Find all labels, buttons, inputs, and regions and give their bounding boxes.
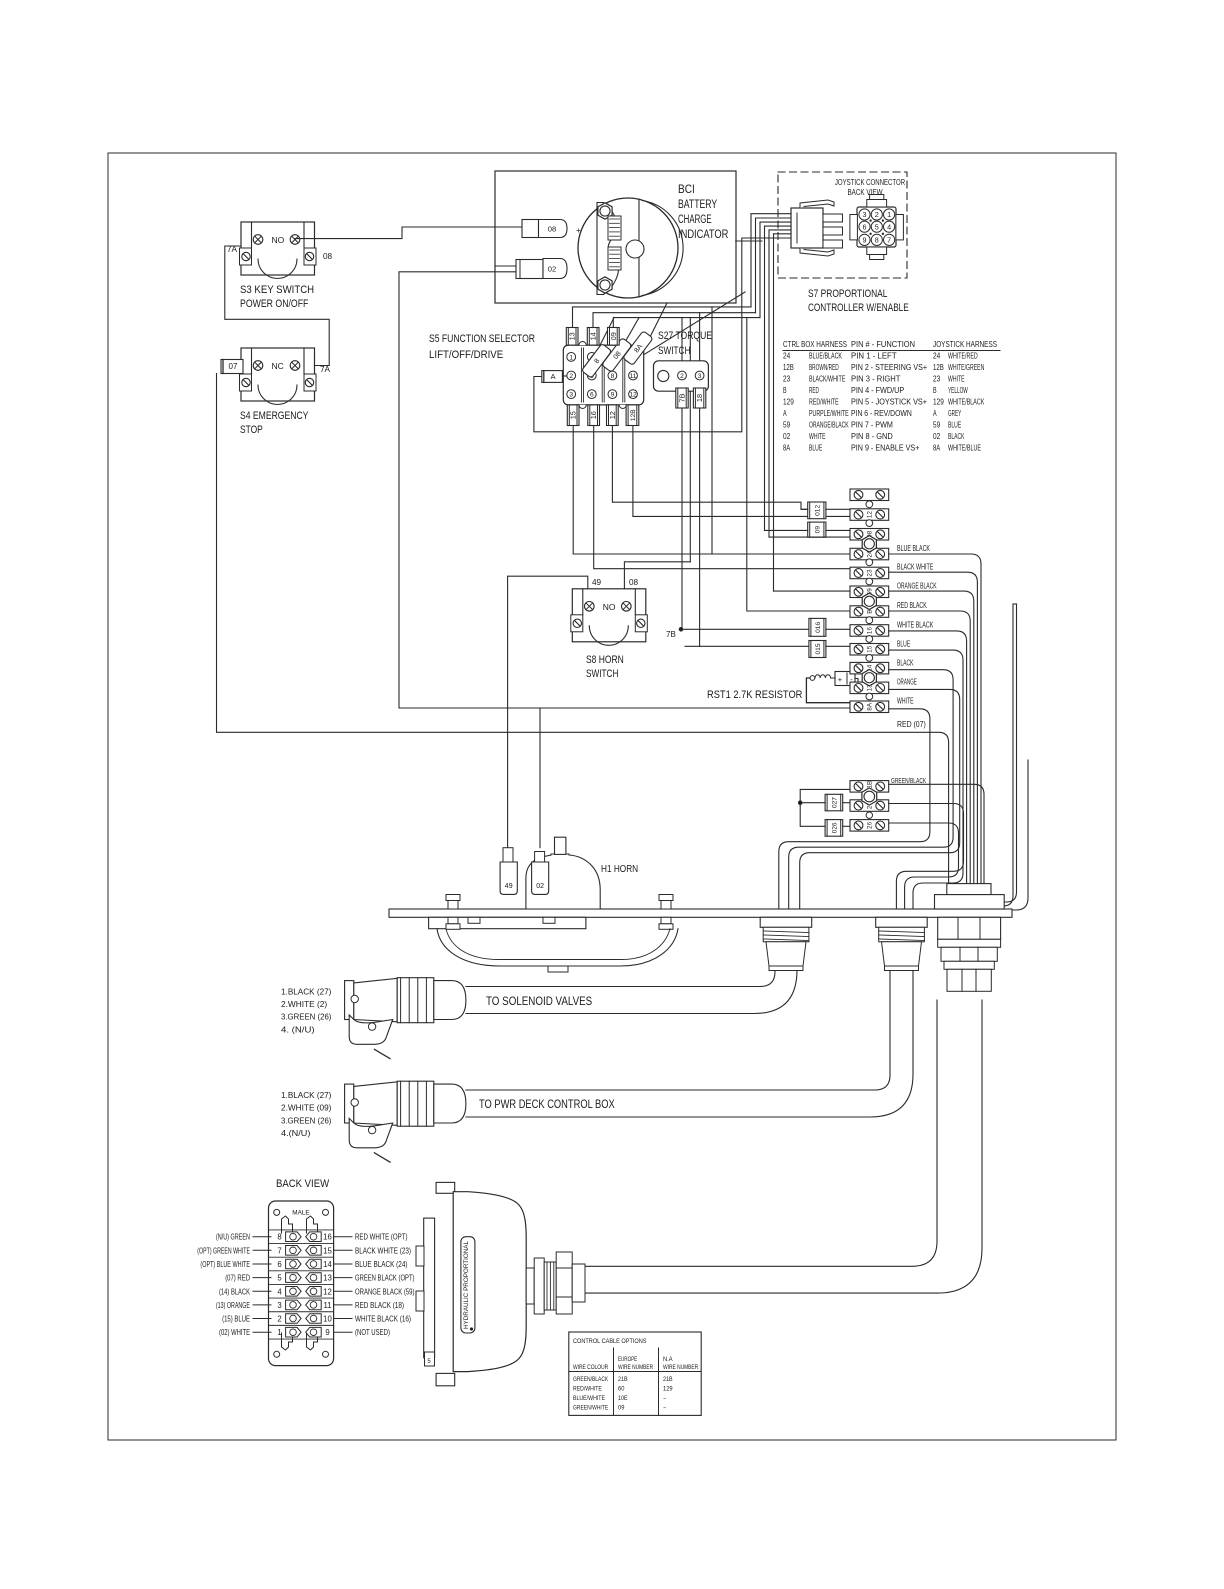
bolt right	[659, 895, 673, 901]
receptacle bottom tab	[867, 247, 887, 255]
BCI pin block lower	[608, 247, 621, 270]
link tag 08	[602, 338, 632, 373]
svg-text:015: 015	[815, 643, 822, 654]
svg-text:YELLOW: YELLOW	[948, 385, 968, 395]
selector column dividers	[581, 348, 583, 402]
svg-text:CHARGE: CHARGE	[678, 214, 712, 226]
svg-text:08: 08	[323, 252, 333, 261]
svg-text:B: B	[933, 385, 937, 395]
svg-text:4. (N/U): 4. (N/U)	[281, 1024, 315, 1034]
wire S8-08	[624, 562, 690, 589]
svg-text:12: 12	[323, 1287, 332, 1296]
wire diagonal d1	[640, 303, 667, 357]
tag 14	[587, 328, 599, 346]
svg-text:15: 15	[323, 1246, 332, 1255]
spade terminal 08	[522, 220, 539, 238]
svg-text:PIN 7 - PWM: PIN 7 - PWM	[851, 420, 893, 430]
svg-text:12: 12	[867, 511, 874, 519]
svg-text:8A: 8A	[867, 702, 874, 711]
svg-text:-: -	[663, 1405, 666, 1412]
flange tabs	[468, 917, 480, 923]
svg-text:H1 HORN: H1 HORN	[601, 863, 638, 875]
svg-text:18: 18	[695, 394, 704, 402]
svg-text:7: 7	[887, 236, 891, 245]
svg-text:2: 2	[277, 1315, 281, 1324]
link tag 8A	[623, 331, 653, 366]
wire sel12B to b2	[633, 426, 850, 517]
svg-text:2: 2	[680, 373, 684, 380]
backview pin row 8/16	[286, 1232, 302, 1242]
svg-text:+: +	[576, 226, 581, 235]
svg-text:09: 09	[814, 526, 821, 534]
link tag 8	[581, 343, 611, 378]
S27 terminal 2	[678, 371, 687, 380]
svg-text:(07) RED: (07) RED	[225, 1274, 250, 1283]
plug pin 2	[823, 227, 843, 235]
svg-text:(N/U) GREEN: (N/U) GREEN	[216, 1233, 250, 1242]
plug body S7	[791, 208, 823, 248]
svg-text:3: 3	[277, 1301, 281, 1310]
svg-text:JOYSTICK CONNECTOR: JOYSTICK CONNECTOR	[835, 178, 905, 187]
selector ear bottom1	[579, 405, 586, 409]
backview latch br	[307, 1333, 318, 1350]
svg-text:4.(N/U): 4.(N/U)	[281, 1128, 311, 1138]
receptacle body	[857, 207, 896, 247]
svg-text:59: 59	[783, 420, 790, 430]
terminal block	[850, 489, 889, 501]
svg-text:1: 1	[887, 210, 891, 219]
backview grid	[269, 1229, 334, 1231]
svg-text:CONTROL CABLE OPTIONS: CONTROL CABLE OPTIONS	[573, 1338, 647, 1345]
strip nut 1	[862, 536, 876, 552]
terminal block 13	[850, 682, 889, 694]
svg-text:7B: 7B	[678, 393, 687, 402]
svg-text:1: 1	[277, 1328, 281, 1337]
wire BLACK to gland L2	[789, 670, 953, 909]
selector ear bottom2	[619, 405, 626, 409]
cable gland big	[947, 884, 991, 895]
wire 027 to block	[843, 802, 850, 804]
svg-text:BLACK WHITE: BLACK WHITE	[897, 563, 933, 572]
svg-text:PIN 6 - REV/DOWN: PIN 6 - REV/DOWN	[851, 408, 912, 418]
svg-text:WHITE/RED: WHITE/RED	[948, 351, 978, 361]
tag 12B	[626, 405, 639, 426]
svg-text:8A: 8A	[933, 443, 940, 453]
svg-text:PURPLE/WHITE: PURPLE/WHITE	[809, 408, 849, 418]
svg-text:12B: 12B	[783, 362, 794, 372]
svg-text:23: 23	[867, 569, 874, 577]
terminal block 24	[850, 548, 889, 560]
svg-text:WIRE COLOUR: WIRE COLOUR	[573, 1364, 608, 1371]
wire ORANGE to gland L3	[800, 689, 960, 909]
svg-text:016: 016	[815, 622, 822, 633]
svg-text:STOP: STOP	[240, 424, 263, 436]
svg-text:BLUE/WHITE: BLUE/WHITE	[573, 1395, 605, 1402]
receptacle top tab	[867, 200, 887, 208]
svg-text:7A: 7A	[320, 365, 331, 374]
svg-text:S3 KEY SWITCH: S3 KEY SWITCH	[240, 284, 314, 296]
aux block 26	[850, 820, 889, 832]
BCI cam profile	[597, 203, 619, 295]
svg-text:2: 2	[569, 373, 573, 380]
svg-text:BLUE: BLUE	[948, 420, 961, 430]
svg-text:6: 6	[277, 1260, 281, 1269]
backview latch tr	[307, 1216, 318, 1233]
wire 012 to b2	[826, 508, 850, 510]
svg-text:SWITCH: SWITCH	[586, 668, 618, 680]
wire net13	[573, 307, 752, 328]
connector to pwr deck	[345, 1084, 354, 1123]
wire net14	[593, 313, 756, 328]
cable hydraulic	[585, 1000, 937, 1266]
wire plug harness bundle	[751, 214, 791, 307]
svg-text:GREEN/BLACK: GREEN/BLACK	[891, 776, 926, 785]
BCI small circle	[626, 240, 644, 258]
svg-text:RED: RED	[809, 385, 819, 395]
receptacle pins	[859, 209, 870, 220]
wire 18 to 015	[685, 645, 809, 647]
svg-text:BLACK WHITE (23): BLACK WHITE (23)	[355, 1246, 411, 1255]
aux block 21B	[850, 781, 889, 793]
selector terminals	[567, 353, 576, 362]
svg-text:PIN 5 - JOYSTICK VS+: PIN 5 - JOYSTICK VS+	[851, 397, 927, 407]
backview pin row 2/10	[286, 1314, 302, 1324]
svg-text:1: 1	[569, 354, 573, 361]
svg-text:PIN # - FUNCTION: PIN # - FUNCTION	[851, 339, 915, 349]
svg-text:2.WHITE (2): 2.WHITE (2)	[281, 999, 327, 1009]
svg-text:BLUE/BLACK: BLUE/BLACK	[809, 351, 842, 361]
wire i3 to 09tag	[765, 529, 808, 531]
svg-text:08: 08	[548, 225, 556, 234]
svg-text:TO SOLENOID VALVES: TO SOLENOID VALVES	[486, 996, 592, 1008]
svg-text:BATTERY: BATTERY	[678, 199, 717, 211]
tag 7B	[676, 388, 688, 408]
switch S3 key switch	[241, 222, 315, 275]
backview pin row 6/14	[286, 1259, 302, 1269]
svg-text:16: 16	[589, 411, 598, 419]
svg-text:8: 8	[875, 236, 879, 245]
backview latch bl	[282, 1333, 293, 1350]
svg-text:02: 02	[933, 431, 940, 441]
svg-text:POWER ON/OFF: POWER ON/OFF	[240, 298, 309, 310]
svg-text:+: +	[838, 675, 843, 684]
svg-text:3.GREEN (26): 3.GREEN (26)	[281, 1012, 332, 1022]
svg-text:GREEN/WHITE: GREEN/WHITE	[573, 1405, 609, 1412]
svg-text:21B: 21B	[618, 1376, 628, 1383]
svg-text:24: 24	[933, 351, 940, 361]
wire S27-2 riser	[681, 318, 683, 371]
svg-text:PIN 4 - FWD/UP: PIN 4 - FWD/UP	[851, 385, 905, 395]
wire netB feeder	[747, 318, 850, 611]
svg-text:BLACK: BLACK	[897, 659, 914, 668]
BCI top nut	[598, 203, 612, 219]
BCI pin block upper	[608, 216, 621, 240]
wire sel16 to b5	[594, 426, 850, 569]
tag 09 top	[608, 328, 620, 346]
wire aux M2	[889, 823, 959, 909]
tag 016	[809, 618, 826, 636]
terminal block 59	[850, 586, 889, 598]
svg-text:13: 13	[323, 1274, 332, 1283]
svg-text:S4 EMERGENCY: S4 EMERGENCY	[240, 410, 309, 422]
backview body	[269, 1201, 334, 1366]
svg-text:BLUE BLACK (24): BLUE BLACK (24)	[355, 1260, 408, 1269]
hydraulic bottom tab	[436, 1373, 455, 1385]
backview pin row 1/9	[286, 1327, 302, 1337]
svg-text:49: 49	[505, 883, 513, 890]
junction 7B	[679, 628, 683, 632]
wire BCI edge to plug	[736, 240, 762, 242]
wire 015 to b9	[826, 645, 850, 647]
border frame	[108, 153, 1116, 1440]
terminal block 16	[850, 625, 889, 637]
tag 015	[809, 641, 826, 658]
horn spade 02	[535, 852, 545, 863]
backview pin row 7/15	[286, 1246, 302, 1256]
receptacle right tab	[896, 215, 904, 240]
horn spade 49	[503, 848, 513, 862]
svg-text:BROWN/RED: BROWN/RED	[809, 362, 839, 372]
svg-text:RED/WHITE: RED/WHITE	[573, 1386, 602, 1393]
wire sel12 to b2tag	[612, 426, 807, 510]
wire S8-49	[508, 576, 588, 848]
terminal strip spacers	[866, 501, 873, 508]
svg-text:02: 02	[536, 883, 544, 890]
selector S5 body	[563, 345, 643, 405]
svg-text:26: 26	[867, 821, 874, 829]
svg-text:8A: 8A	[783, 443, 790, 453]
svg-text:TO PWR DECK CONTROL BOX: TO PWR DECK CONTROL BOX	[479, 1099, 615, 1111]
svg-text:027: 027	[832, 797, 839, 808]
svg-text:(15) BLUE: (15) BLUE	[222, 1315, 250, 1324]
svg-text:10: 10	[323, 1315, 332, 1324]
svg-text:PIN 2 - STEERING VS+: PIN 2 - STEERING VS+	[851, 362, 927, 372]
svg-text:129: 129	[783, 397, 794, 407]
svg-text:12: 12	[608, 411, 617, 419]
svg-text:09: 09	[609, 332, 618, 340]
svg-text:ORANGE BLACK: ORANGE BLACK	[897, 582, 937, 591]
svg-text:(14) BLACK: (14) BLACK	[219, 1287, 251, 1296]
wire 7B to 016	[681, 628, 809, 630]
svg-text:LIFT/OFF/DRIVE: LIFT/OFF/DRIVE	[429, 349, 503, 361]
tag 12	[607, 405, 619, 426]
aux block 27	[850, 800, 889, 812]
svg-text:6: 6	[863, 222, 867, 231]
svg-text:S7 PROPORTIONAL: S7 PROPORTIONAL	[808, 288, 888, 300]
svg-text:129: 129	[933, 397, 944, 407]
backview pin row 4/12	[286, 1287, 302, 1297]
aux nut	[862, 788, 877, 805]
svg-text:BACK VIEW: BACK VIEW	[276, 1178, 329, 1190]
svg-text:WHITE: WHITE	[897, 697, 914, 706]
svg-text:9: 9	[611, 392, 615, 399]
svg-text:2.WHITE (09): 2.WHITE (09)	[281, 1103, 332, 1113]
svg-text:3: 3	[863, 210, 867, 219]
svg-text:PIN 3 - RIGHT: PIN 3 - RIGHT	[851, 374, 900, 384]
svg-text:RED WHITE (OPT): RED WHITE (OPT)	[355, 1233, 408, 1242]
svg-text:GREEN BLACK (OPT): GREEN BLACK (OPT)	[355, 1274, 415, 1283]
tag 027	[825, 794, 843, 811]
tag 09	[808, 522, 826, 537]
cable gland middle	[876, 917, 928, 927]
svg-text:15: 15	[569, 411, 578, 419]
svg-text:1.BLACK (27): 1.BLACK (27)	[281, 986, 332, 996]
svg-text:9: 9	[325, 1328, 329, 1337]
svg-text:PIN 8 - GND: PIN 8 - GND	[851, 431, 893, 441]
tag 07 at S4	[221, 360, 243, 374]
svg-text:B: B	[783, 385, 787, 395]
svg-text:49: 49	[592, 578, 602, 587]
svg-text:GREEN/BLACK: GREEN/BLACK	[573, 1376, 609, 1383]
svg-text:WHITE/BLUE: WHITE/BLUE	[948, 443, 981, 453]
BCI inner arc	[642, 201, 683, 296]
terminal block B	[850, 606, 889, 618]
svg-text:3.GREEN (26): 3.GREEN (26)	[281, 1115, 332, 1125]
svg-text:GREY: GREY	[948, 408, 961, 418]
svg-text:HYDRAULIC PROPORTIONAL: HYDRAULIC PROPORTIONAL	[463, 1241, 470, 1329]
svg-text:(NOT USED): (NOT USED)	[355, 1328, 390, 1337]
svg-text:16: 16	[867, 627, 874, 635]
mounting plate	[389, 909, 1012, 917]
svg-text:4: 4	[277, 1287, 282, 1296]
svg-text:7: 7	[277, 1246, 281, 1255]
svg-text:RST1 2.7K RESISTOR: RST1 2.7K RESISTOR	[707, 689, 802, 701]
svg-text:23: 23	[933, 374, 940, 384]
svg-text:WIRE NUMBER: WIRE NUMBER	[663, 1364, 698, 1371]
svg-text:S27 TORQUE: S27 TORQUE	[658, 330, 712, 342]
backview corner hole	[323, 1351, 329, 1357]
receptacle left tab	[850, 215, 858, 240]
svg-text:EUROPE: EUROPE	[618, 1356, 638, 1363]
wire plug line7 A-net	[534, 238, 791, 432]
svg-text:A: A	[783, 408, 787, 418]
wire aux bracket	[800, 789, 850, 826]
svg-text:WHITE: WHITE	[948, 374, 965, 384]
tag 026	[825, 820, 843, 837]
control cable options table	[569, 1332, 701, 1415]
svg-text:RED BLACK: RED BLACK	[897, 601, 927, 610]
svg-text:3: 3	[698, 373, 702, 380]
svg-text:B: B	[867, 609, 874, 613]
wire 016 to b8	[826, 628, 850, 630]
svg-text:5: 5	[277, 1274, 282, 1283]
svg-text:12: 12	[629, 392, 637, 399]
svg-text:ORANGE/BLACK: ORANGE/BLACK	[809, 420, 849, 430]
svg-text:A: A	[933, 408, 937, 418]
plug pin 1	[823, 214, 843, 222]
svg-text:14: 14	[589, 332, 598, 340]
svg-text:N.A: N.A	[663, 1356, 673, 1363]
svg-text:2: 2	[875, 210, 879, 219]
svg-text:RED/WHITE: RED/WHITE	[809, 397, 839, 407]
hydraulic connector stack	[424, 1218, 435, 1358]
svg-text:(02) WHITE: (02) WHITE	[219, 1328, 250, 1337]
svg-text:CONTROLLER W/ENABLE: CONTROLLER W/ENABLE	[808, 302, 909, 314]
wire sel12 tagleft	[801, 508, 808, 510]
svg-text:24: 24	[783, 351, 790, 361]
tag 16	[588, 405, 600, 426]
svg-text:9: 9	[863, 236, 867, 245]
svg-text:PIN 1 - LEFT: PIN 1 - LEFT	[851, 351, 897, 361]
junction aux	[798, 801, 802, 805]
terminal block 15	[850, 644, 889, 656]
svg-text:RED BLACK (18): RED BLACK (18)	[355, 1301, 404, 1310]
wire diagonal d3	[594, 318, 614, 357]
resistor RST1	[810, 676, 815, 681]
svg-text:21B: 21B	[663, 1376, 673, 1383]
strip nut 3	[862, 670, 876, 686]
wire 07 net	[217, 374, 949, 885]
BCI chord line	[638, 199, 640, 297]
terminal block 12	[850, 509, 889, 521]
svg-text:02: 02	[548, 265, 556, 274]
tag 18	[693, 388, 705, 408]
S27 plain circle	[658, 370, 669, 381]
wire 02 net riser	[399, 272, 516, 708]
svg-text:13: 13	[568, 332, 577, 340]
svg-text:4: 4	[887, 222, 891, 231]
svg-text:08: 08	[629, 578, 639, 587]
wire S27-3 riser	[699, 313, 701, 371]
wire sel15 to b4	[573, 426, 712, 555]
hydraulic gland	[526, 1268, 534, 1304]
svg-text:JOYSTICK HARNESS: JOYSTICK HARNESS	[933, 339, 997, 349]
svg-text:S5 FUNCTION SELECTOR: S5 FUNCTION SELECTOR	[429, 333, 535, 345]
S27 terminal 3	[695, 371, 704, 380]
wire BLUE to M3	[889, 650, 963, 909]
svg-text:14: 14	[323, 1260, 332, 1269]
wire i5 to b6	[774, 590, 851, 592]
wire 7A S3-S4	[225, 246, 329, 366]
svg-text:BCI: BCI	[678, 184, 695, 196]
svg-text:09: 09	[618, 1405, 625, 1412]
wire diagonal long	[640, 292, 745, 357]
svg-text:SWITCH: SWITCH	[658, 345, 690, 357]
svg-text:7B: 7B	[666, 630, 676, 639]
horn flange	[429, 917, 586, 928]
terminal block 8A	[850, 701, 889, 713]
tag A	[542, 371, 563, 383]
svg-text:012: 012	[814, 505, 821, 516]
tag 13	[566, 328, 578, 346]
cable to solenoid valves	[466, 971, 775, 987]
svg-text:WHITE/GREEN: WHITE/GREEN	[948, 362, 984, 372]
wire diagonal d2	[612, 318, 639, 365]
S27 body	[654, 361, 709, 391]
svg-text:NC: NC	[272, 361, 284, 371]
plug latch bottom	[800, 248, 834, 256]
wire 02 spade stub	[495, 265, 516, 267]
horn H1 body	[526, 854, 600, 909]
wire RST1 left loop	[806, 678, 851, 703]
svg-text:10E: 10E	[618, 1395, 628, 1402]
wire i4 to b3	[769, 536, 850, 538]
plug latch top	[800, 200, 834, 208]
svg-text:PIN 9 - ENABLE VS+: PIN 9 - ENABLE VS+	[851, 443, 919, 453]
svg-text:WIRE NUMBER: WIRE NUMBER	[618, 1364, 653, 1371]
svg-text:MALE: MALE	[292, 1210, 309, 1217]
svg-text:3: 3	[569, 392, 573, 399]
svg-text:11: 11	[323, 1301, 331, 1310]
plug pin 3	[823, 240, 843, 248]
joystick connector dashed box	[778, 172, 907, 278]
wire 7B down	[681, 408, 683, 629]
strip nut 2	[862, 593, 876, 609]
wire A tag to terminal	[562, 375, 566, 377]
wire 18 down	[699, 408, 701, 646]
selector ear top	[579, 342, 586, 346]
backview corner hole	[274, 1209, 280, 1215]
